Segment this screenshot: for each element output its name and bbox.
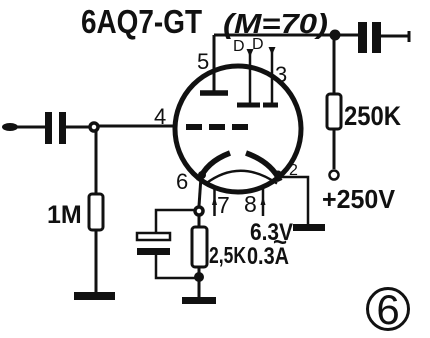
ground (pin 2) — [293, 224, 325, 231]
input terminal — [2, 123, 45, 131]
svg-text:1M: 1M — [47, 201, 82, 229]
wire node A down to R1 — [95, 131, 98, 194]
plate (pin 5) — [200, 90, 228, 96]
capacitor C2 minus plate — [137, 248, 170, 255]
wire node C left to C2 — [156, 210, 194, 232]
wire C1 to node A — [66, 126, 90, 129]
cathode pin 6 lead — [199, 177, 201, 206]
svg-text:3: 3 — [275, 62, 287, 87]
svg-text:6AQ7-GT: 6AQ7-GT — [81, 3, 202, 40]
resistor R2 — [192, 227, 207, 267]
wire R3 to supply terminal — [333, 129, 336, 169]
diode plate D2 — [263, 103, 278, 108]
terminal +250V — [330, 171, 339, 180]
diode plate D1 — [237, 103, 260, 108]
svg-text:2,5K: 2,5K — [209, 242, 246, 268]
plate pin 5 lead — [213, 35, 216, 92]
wire plate top rail — [214, 34, 358, 37]
junction blob right — [274, 171, 282, 179]
resistor R1 — [89, 194, 103, 230]
wire pin 2 to ground — [278, 177, 308, 225]
wire node A to grid pin 4 — [99, 125, 176, 128]
heater pin 8 lead — [261, 188, 266, 216]
grid (pin 4) — [186, 124, 248, 130]
diode D2 lead — [269, 47, 276, 103]
svg-text:6: 6 — [176, 169, 188, 194]
capacitor C2 electrolytic plus plate — [137, 233, 170, 240]
svg-text:6: 6 — [376, 286, 399, 333]
wire R1 to ground — [95, 230, 98, 293]
wire node D to ground — [198, 267, 201, 297]
svg-text:8: 8 — [244, 191, 257, 217]
wire C2 to node D — [156, 255, 195, 278]
wire node C down to R2 — [198, 215, 201, 227]
svg-text:D: D — [233, 38, 245, 55]
svg-text:0.3A: 0.3A — [247, 243, 289, 270]
svg-text:4: 4 — [154, 104, 166, 129]
resistor R3 — [327, 94, 341, 129]
wire C3 output — [381, 31, 410, 42]
ground (cathode) — [182, 297, 216, 304]
svg-text:7: 7 — [217, 192, 230, 218]
diode D1 lead — [247, 49, 254, 103]
figure number 6 circle — [368, 289, 409, 330]
svg-text:D: D — [252, 36, 264, 53]
node A junction — [90, 123, 98, 131]
node B junction — [330, 30, 341, 41]
wire node B down to R3 — [333, 40, 336, 94]
node D junction — [194, 272, 204, 282]
node C junction — [195, 207, 203, 215]
capacitor C3 — [358, 22, 381, 53]
svg-text:250K: 250K — [344, 101, 401, 131]
ground (grid leak) — [74, 292, 115, 300]
tube V1 envelope — [175, 66, 301, 192]
capacitor C1 — [45, 112, 66, 144]
heater left arc — [199, 153, 230, 181]
junction blob left — [198, 171, 206, 179]
cathode — [206, 171, 277, 184]
svg-text:5: 5 — [197, 49, 209, 74]
heater pin 7 lead — [212, 189, 217, 216]
heater right arc — [246, 153, 280, 181]
svg-text:+250V: +250V — [322, 184, 396, 214]
